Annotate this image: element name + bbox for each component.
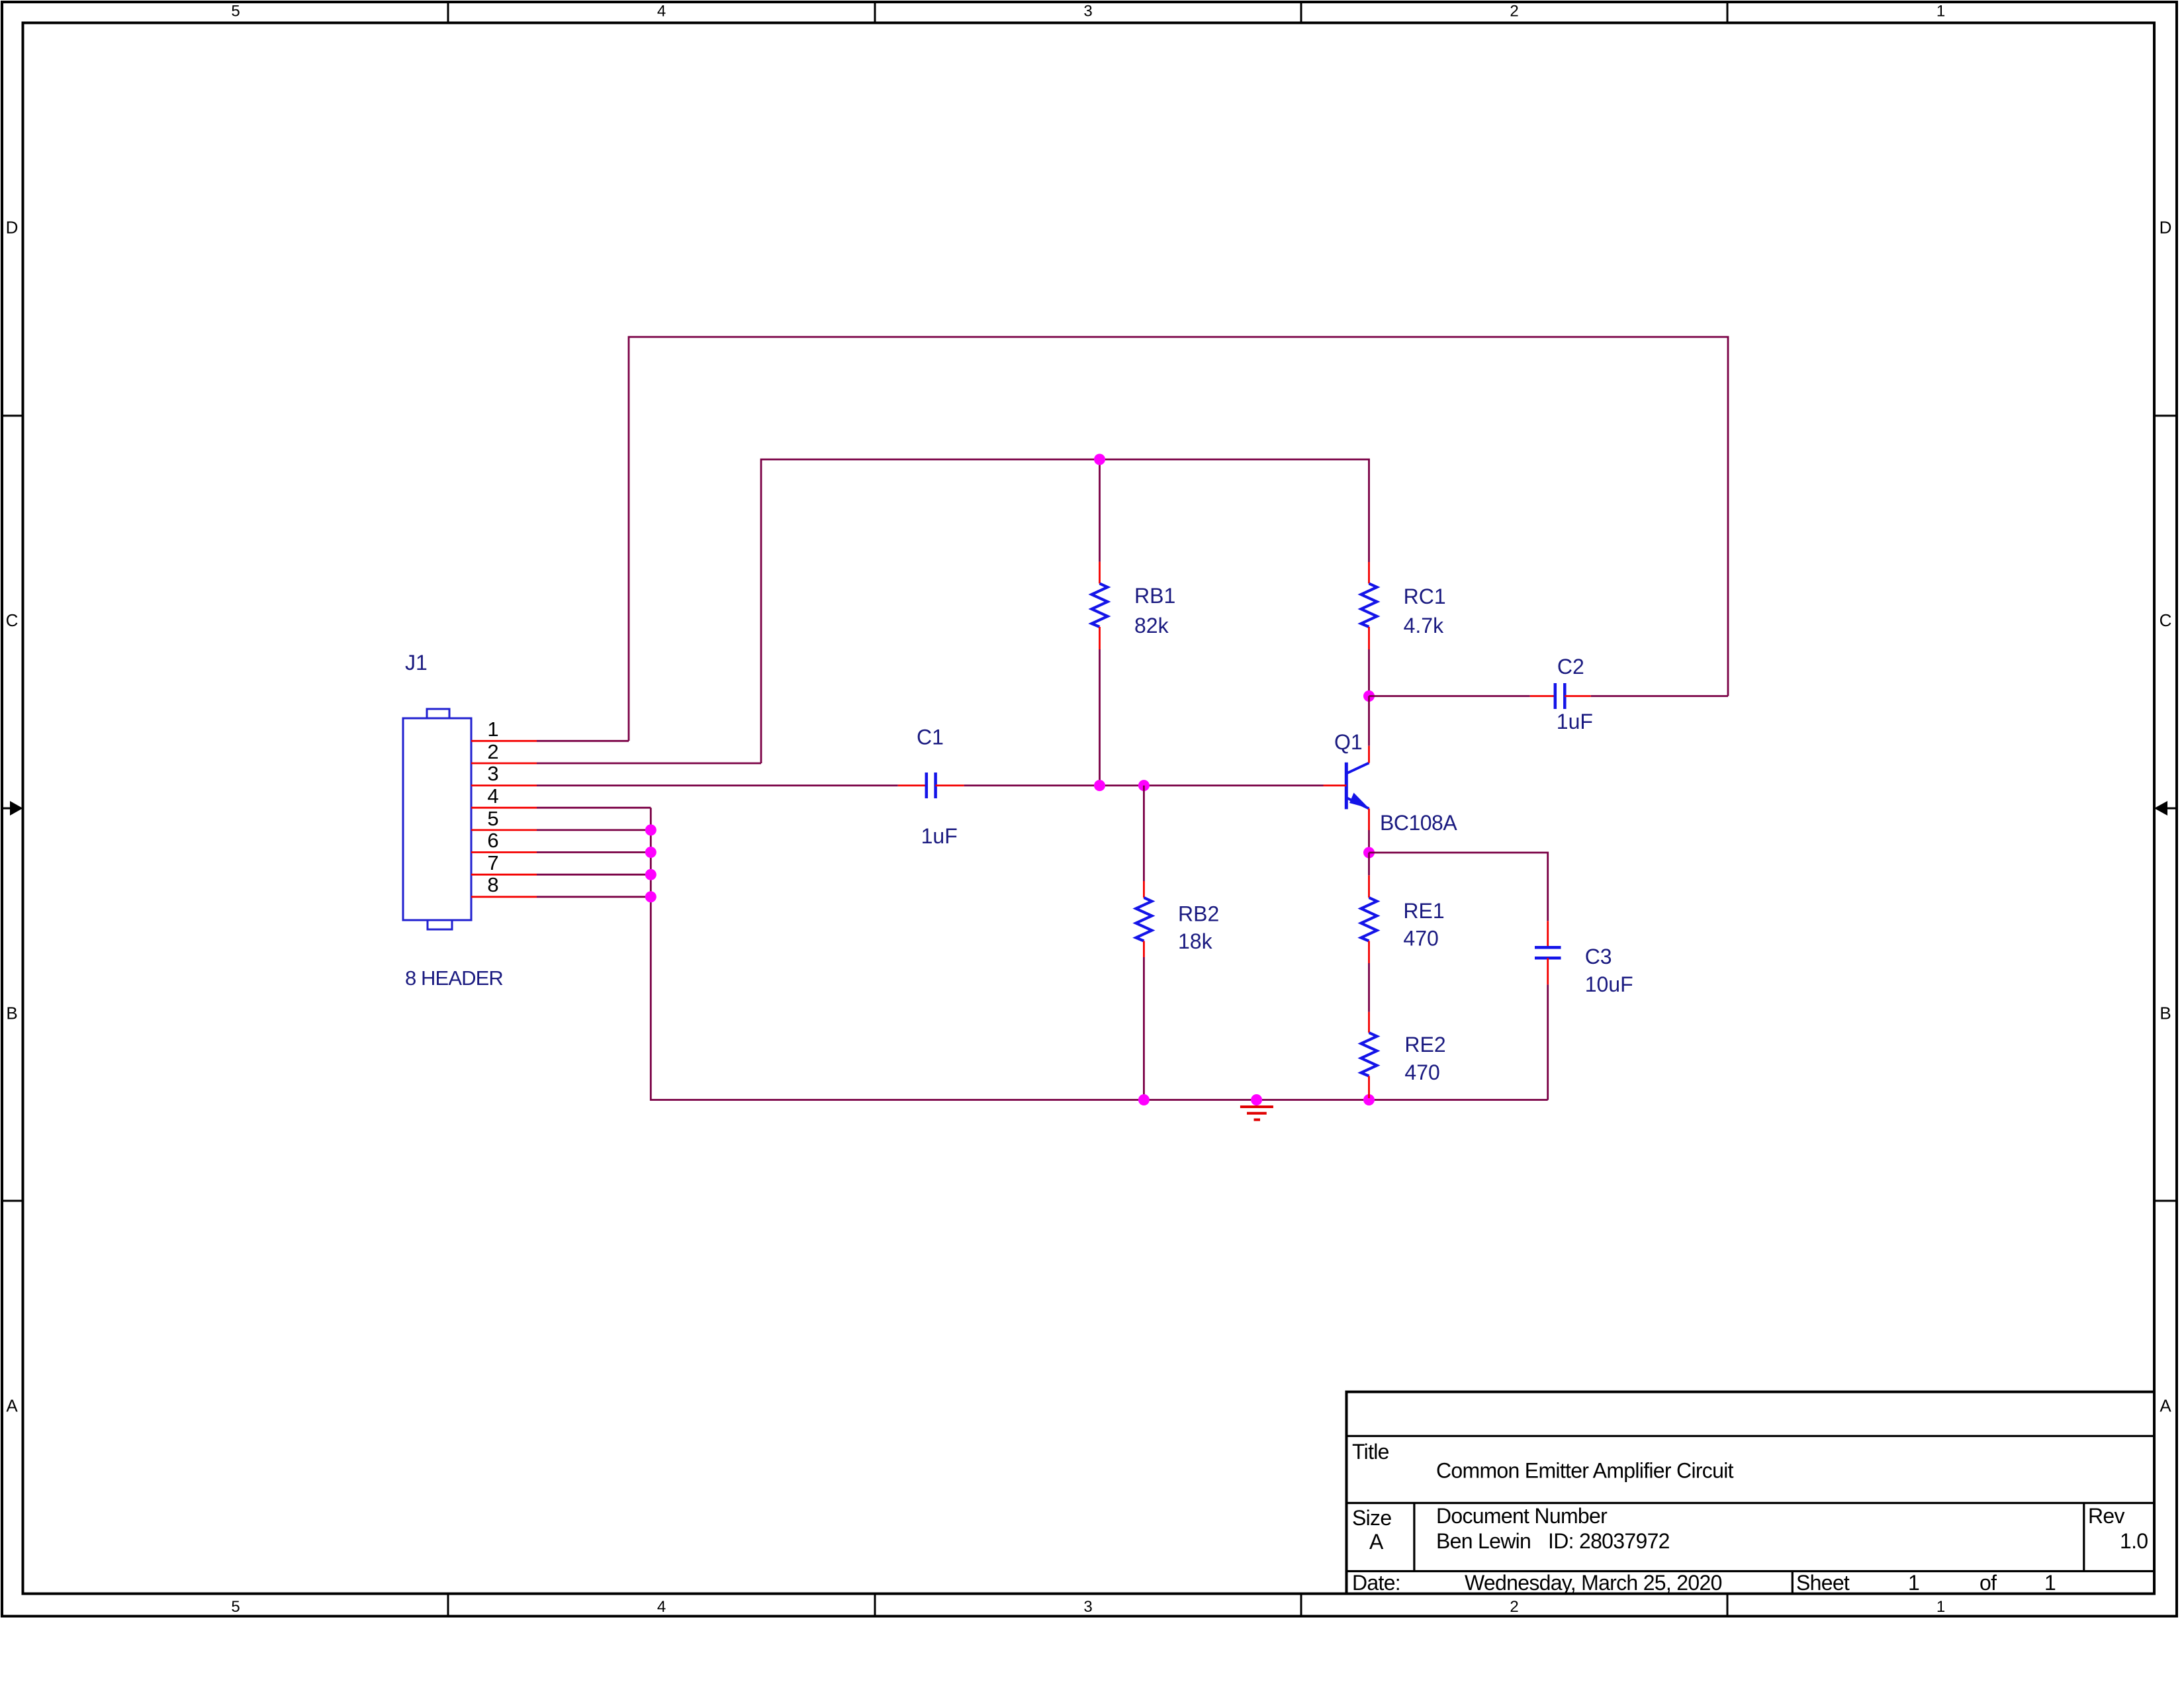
wire collector node to C2 — [1369, 695, 1530, 697]
J1 pin 6 lead — [471, 851, 537, 853]
J1 pin 8 lead — [471, 896, 537, 898]
wire pin4 horizontal — [537, 807, 651, 809]
J1 pin 1 lead — [471, 740, 537, 742]
row tick marks right — [2154, 416, 2177, 1201]
junction RB1 top — [1094, 454, 1105, 465]
junction pin8 — [645, 891, 657, 902]
svg-text:D: D — [6, 218, 19, 238]
svg-text:18k: 18k — [1178, 929, 1213, 953]
svg-text:B: B — [6, 1004, 17, 1023]
wire RB1 bottom vertical — [1099, 649, 1101, 786]
wire RC1 bottom to collector node — [1368, 649, 1370, 696]
junction base/RB2 — [1138, 780, 1150, 791]
svg-text:8 HEADER: 8 HEADER — [405, 966, 503, 990]
svg-text:1uF: 1uF — [921, 824, 958, 848]
junction ground at rail — [1251, 1094, 1262, 1105]
svg-text:Ben Lewin: Ben Lewin — [1436, 1529, 1531, 1553]
wire C2 right to corner riser — [1591, 695, 1728, 697]
svg-text:RC1: RC1 — [1404, 585, 1446, 608]
wire pin2 horizontal — [537, 763, 761, 765]
connector J1 body — [403, 709, 471, 929]
row tick marks left — [2, 416, 23, 1201]
wire C1 to base node — [964, 784, 1324, 786]
title block outline — [1347, 1392, 2155, 1594]
svg-text:1: 1 — [487, 718, 498, 741]
svg-text:1: 1 — [1936, 1598, 1945, 1616]
svg-text:C: C — [6, 610, 19, 630]
transistor Q1 — [1324, 746, 1369, 830]
wire pin8 horizontal — [537, 896, 651, 898]
wire RB1 top vertical — [1099, 459, 1101, 562]
resistor RC1 — [1361, 562, 1377, 649]
svg-text:Size: Size — [1352, 1506, 1391, 1530]
wire pin3 to C1 — [537, 784, 898, 786]
resistor RB1 — [1092, 562, 1108, 649]
junction base/RB1 — [1094, 780, 1105, 791]
svg-text:3: 3 — [1083, 3, 1092, 21]
svg-text:BC108A: BC108A — [1380, 811, 1457, 835]
junction RB2 at rail — [1138, 1094, 1150, 1105]
svg-text:D: D — [2160, 218, 2172, 238]
wire pin5 horizontal — [537, 829, 651, 831]
svg-text:1uF: 1uF — [1557, 710, 1593, 733]
svg-text:470: 470 — [1404, 1060, 1439, 1084]
left edge center arrow — [2, 801, 23, 816]
svg-text:RE2: RE2 — [1404, 1033, 1445, 1056]
svg-text:Rev: Rev — [2088, 1504, 2125, 1528]
J1 pin 2 lead — [471, 763, 537, 765]
svg-text:1: 1 — [2044, 1571, 2056, 1595]
svg-text:A: A — [2160, 1396, 2171, 1416]
svg-text:Q1: Q1 — [1334, 730, 1363, 754]
svg-text:10uF: 10uF — [1585, 972, 1633, 996]
wire emitter node to C3 branch — [1369, 853, 1548, 921]
svg-text:Title: Title — [1352, 1440, 1389, 1464]
svg-text:C2: C2 — [1557, 655, 1584, 679]
svg-text:3: 3 — [487, 762, 498, 785]
wire pin7 horizontal — [537, 874, 651, 876]
capacitor C3 — [1535, 921, 1561, 984]
J1 pin 5 lead — [471, 829, 537, 831]
svg-text:of: of — [1979, 1571, 1997, 1595]
svg-text:A: A — [6, 1396, 18, 1416]
grid row labels left — [6, 218, 19, 1416]
svg-text:2: 2 — [1510, 1598, 1518, 1616]
svg-text:470: 470 — [1403, 927, 1438, 951]
wire emitter node down to RE1 — [1368, 853, 1370, 875]
svg-text:1: 1 — [1936, 3, 1945, 21]
grid column labels top — [231, 3, 1945, 21]
junction emitter node — [1363, 847, 1375, 859]
svg-text:RB2: RB2 — [1178, 902, 1219, 926]
svg-text:C1: C1 — [917, 726, 944, 749]
svg-text:8: 8 — [487, 873, 498, 896]
svg-text:Sheet: Sheet — [1796, 1571, 1850, 1595]
wire collector node down to Q1 — [1368, 696, 1370, 746]
junction pin6 — [645, 847, 657, 858]
svg-text:2: 2 — [487, 740, 498, 763]
wire RE1 bottom to RE2 top — [1368, 963, 1370, 1012]
ground symbol — [1240, 1107, 1273, 1120]
svg-text:J1: J1 — [405, 651, 428, 675]
svg-text:6: 6 — [487, 829, 498, 852]
column tick marks bottom — [448, 1594, 1727, 1617]
resistor RE1 — [1361, 875, 1377, 963]
grid row labels right — [2160, 218, 2172, 1416]
capacitor C2 — [1530, 683, 1591, 709]
wire second rail (pin2 to RB1/RC1 tops) — [761, 459, 1369, 763]
svg-text:Wednesday, March 25, 2020: Wednesday, March 25, 2020 — [1465, 1571, 1722, 1595]
resistor RB2 — [1136, 881, 1152, 957]
resistor RE2 — [1361, 1012, 1377, 1098]
wire RB2 vertical — [1143, 786, 1145, 881]
wire pin6 horizontal — [537, 851, 651, 853]
wire ground rail — [651, 808, 1547, 1100]
wire VCC top rail — [629, 337, 1728, 741]
junction pin5 — [645, 824, 657, 835]
svg-text:4: 4 — [657, 1598, 666, 1616]
wire C3 bottom to rail — [1547, 984, 1549, 1100]
svg-text:B: B — [2160, 1004, 2171, 1023]
svg-text:RE1: RE1 — [1403, 899, 1444, 923]
svg-text:A: A — [1369, 1530, 1384, 1554]
column tick marks top — [448, 2, 1727, 23]
capacitor C1 — [898, 773, 964, 798]
svg-text:5: 5 — [231, 1598, 240, 1616]
right edge center arrow — [2154, 801, 2177, 816]
svg-text:Document Number: Document Number — [1436, 1504, 1608, 1528]
J1 pin numbers — [487, 718, 498, 896]
svg-text:ID: 28037972: ID: 28037972 — [1548, 1529, 1670, 1553]
wire pin1 to VCC riser — [537, 740, 629, 742]
svg-text:3: 3 — [1083, 1598, 1092, 1616]
svg-text:2: 2 — [1510, 3, 1518, 21]
grid column labels bottom — [231, 1598, 1945, 1616]
svg-text:5: 5 — [487, 807, 498, 830]
wire emitter down to node — [1368, 830, 1370, 853]
svg-text:5: 5 — [231, 3, 240, 21]
svg-text:82k: 82k — [1134, 614, 1169, 637]
J1 pin 7 lead — [471, 874, 537, 876]
svg-text:Date:: Date: — [1352, 1571, 1400, 1595]
svg-text:4: 4 — [487, 784, 498, 808]
junction collector node — [1363, 690, 1375, 702]
J1 pin 4 lead — [471, 807, 537, 809]
svg-text:4: 4 — [657, 3, 666, 21]
svg-text:C3: C3 — [1585, 945, 1612, 968]
junction RE2 at rail — [1363, 1094, 1375, 1105]
svg-text:4.7k: 4.7k — [1404, 614, 1444, 637]
J1 pin 3 lead — [471, 784, 537, 786]
wire RB2 bottom to rail — [1143, 957, 1145, 1100]
svg-text:C: C — [2160, 610, 2172, 630]
svg-text:1.0: 1.0 — [2120, 1529, 2148, 1553]
svg-text:7: 7 — [487, 851, 498, 874]
svg-text:Common Emitter Amplifier Circu: Common Emitter Amplifier Circuit — [1436, 1458, 1734, 1482]
junction pin7 — [645, 869, 657, 880]
svg-text:RB1: RB1 — [1134, 584, 1175, 608]
svg-text:1: 1 — [1908, 1571, 1919, 1595]
